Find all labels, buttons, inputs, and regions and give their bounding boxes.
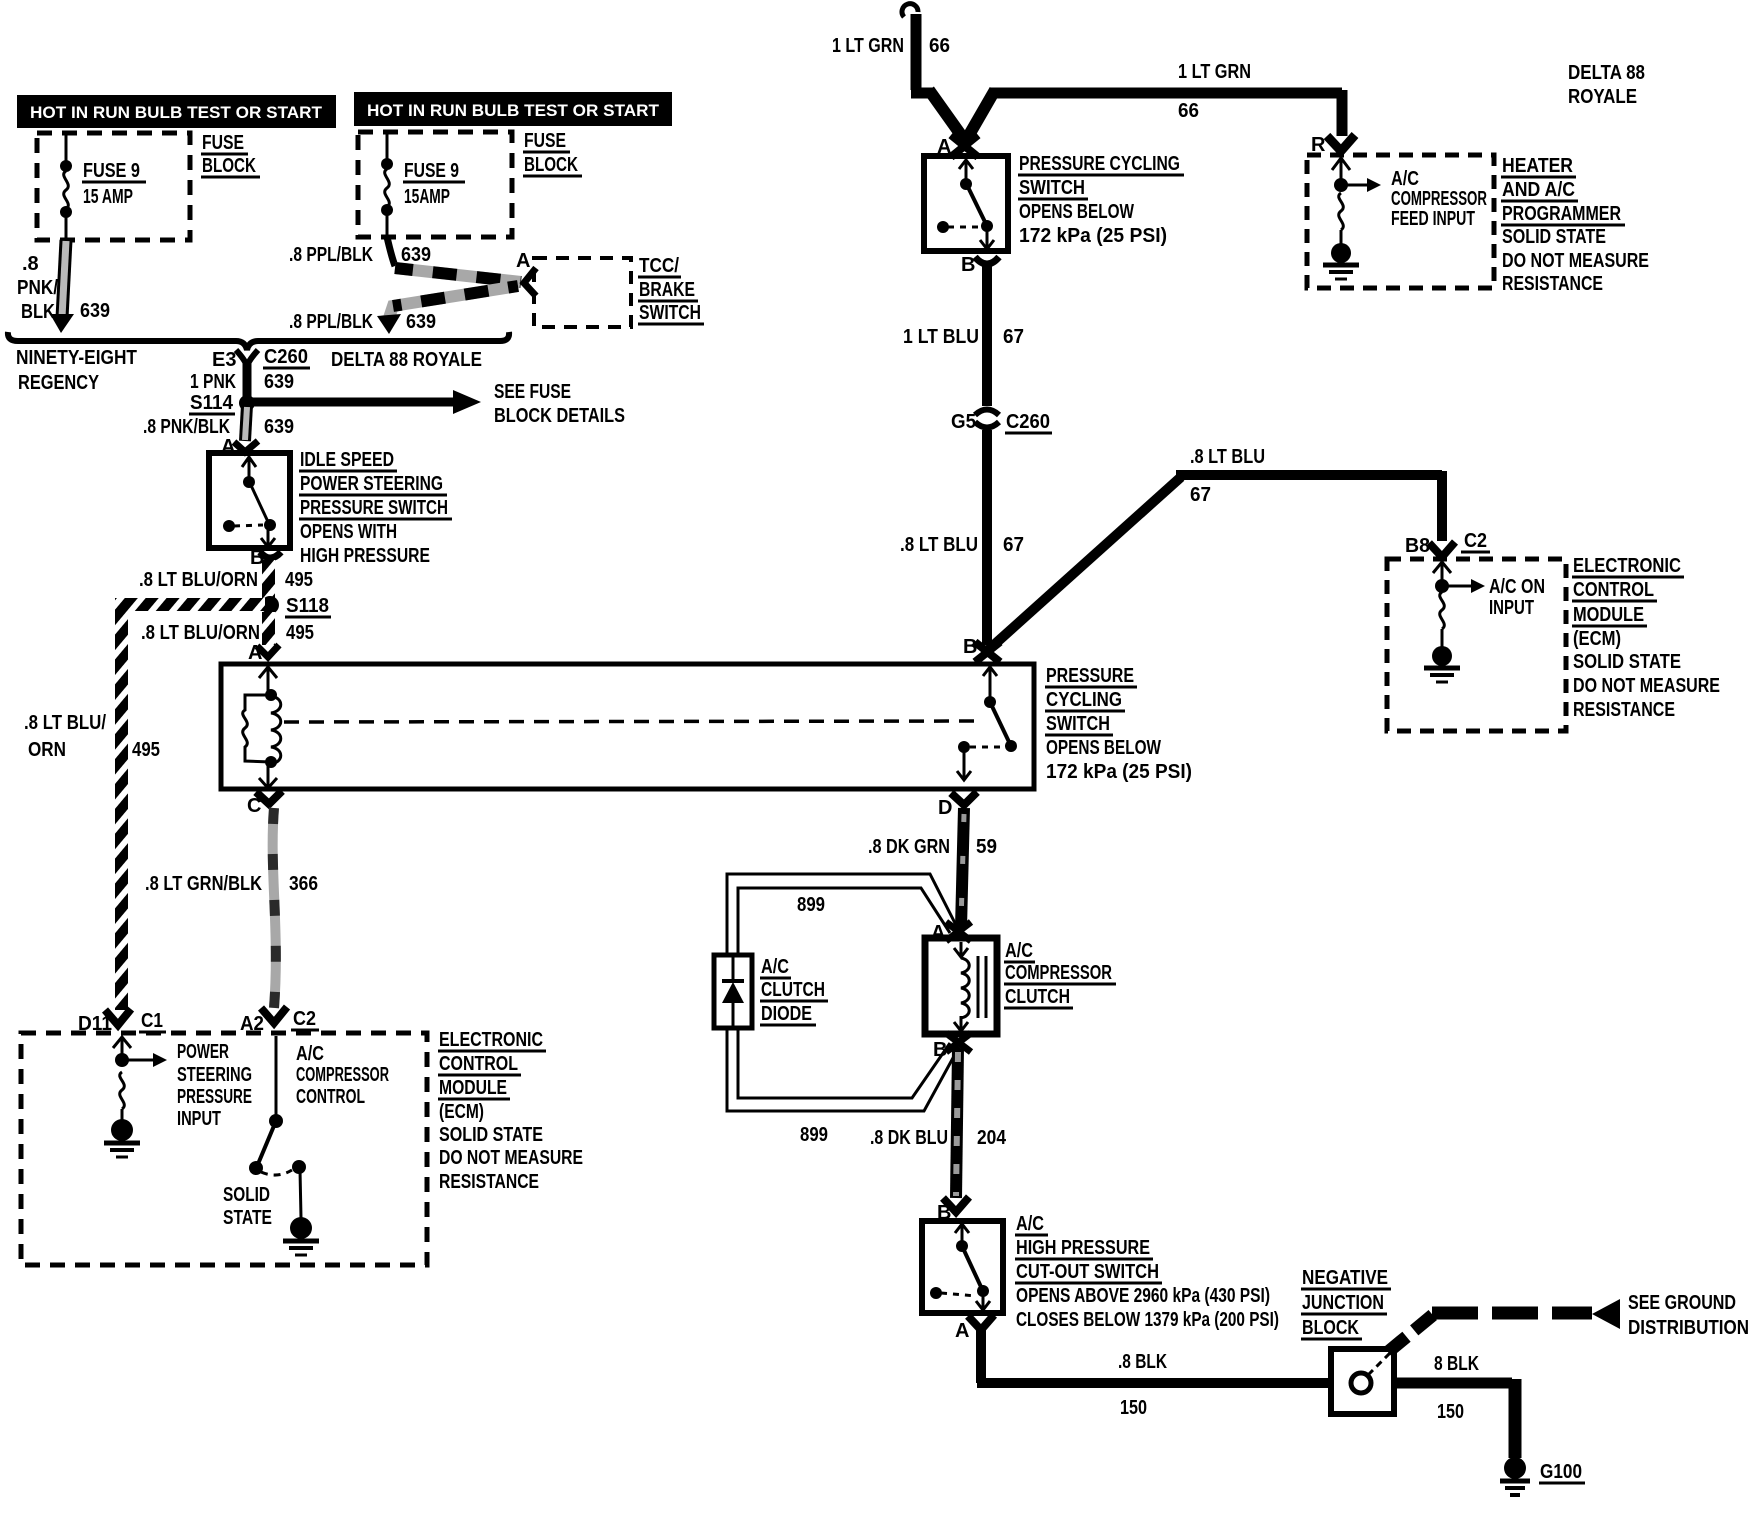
svg-text:.8: .8: [22, 253, 39, 275]
labels 1 LT GRN 66 (horizontal): [1178, 61, 1251, 122]
svg-text:STATE: STATE: [223, 1207, 272, 1229]
svg-text:639: 639: [264, 371, 294, 393]
label G100: [1539, 1461, 1585, 1483]
wire .8 LT GRN/BLK 366 (gray, C to A2): [273, 808, 276, 1008]
electronic control module right (dashed box): [1387, 559, 1566, 731]
wire 8 BLK 150 (block to G100): [1394, 1379, 1515, 1458]
svg-text:495: 495: [285, 569, 313, 591]
splice S114: [239, 395, 255, 411]
ECM input circuit (A/C ON): [1433, 562, 1471, 647]
arrowhead see ground distribution: [1592, 1299, 1620, 1329]
connector D: [951, 792, 977, 805]
switch contacts (assembly right): [957, 667, 1010, 780]
labels .8 LT BLU 67 (branch): [1190, 446, 1265, 506]
A/C compressor clutch (box): [925, 938, 997, 1034]
wire .8 PNK/BLK 639 (gray): [245, 405, 247, 441]
svg-text:.8 PPL/BLK: .8 PPL/BLK: [289, 244, 373, 266]
svg-text:(ECM): (ECM): [439, 1101, 484, 1123]
ground (ECM left internal 1): [104, 1119, 140, 1157]
fuse F9 (Ninety-Eight): [64, 133, 69, 240]
feed bar HOT IN RUN (Delta 88): [354, 92, 672, 126]
svg-text:SOLID STATE: SOLID STATE: [1502, 226, 1606, 248]
svg-text:G5: G5: [951, 411, 976, 433]
svg-text:BLOCK: BLOCK: [202, 155, 256, 177]
labels .8 LT GRN/BLK 366: [145, 873, 318, 895]
svg-text:DISTRIBUTION: DISTRIBUTION: [1628, 1317, 1749, 1339]
label A/C COMPRESSOR FEED INPUT: [1391, 168, 1487, 230]
wire stub from fuse 2: [387, 237, 395, 266]
svg-text:STEERING: STEERING: [177, 1064, 252, 1086]
label A/C COMPRESSOR CLUTCH: [1004, 940, 1116, 1008]
svg-text:172 kPa (25 PSI): 172 kPa (25 PSI): [1019, 225, 1167, 247]
labels .8 PPL/BLK 639 (upper): [289, 244, 431, 266]
connector C2 (ECM right): [1429, 542, 1455, 557]
svg-text:PNK/: PNK/: [17, 277, 58, 299]
labels .8 LT BLU/ORN 495 (left drop): [24, 712, 160, 761]
svg-text:RESISTANCE: RESISTANCE: [1502, 273, 1603, 295]
svg-text:C260: C260: [264, 346, 308, 368]
diode symbol: [722, 957, 744, 1026]
sensing coil: [271, 696, 281, 764]
label A/C ON INPUT: [1489, 576, 1545, 619]
wire striped S118 to A: [262, 612, 275, 645]
svg-text:DO NOT MEASURE: DO NOT MEASURE: [1502, 250, 1649, 272]
connector B: [975, 257, 999, 264]
svg-text:MODULE: MODULE: [439, 1077, 507, 1099]
svg-text:RESISTANCE: RESISTANCE: [1573, 699, 1675, 721]
svg-text:899: 899: [800, 1124, 828, 1146]
clutch coil and plates: [954, 942, 986, 1031]
connector C2 (A2): [261, 1007, 287, 1023]
wire .8 PPL/BLK lower band: [377, 286, 518, 334]
svg-text:SEE FUSE: SEE FUSE: [494, 381, 571, 403]
svg-text:A: A: [516, 250, 530, 272]
svg-text:172 kPa (25 PSI): 172 kPa (25 PSI): [1046, 761, 1192, 783]
svg-text:REGENCY: REGENCY: [18, 372, 100, 394]
svg-text:S118: S118: [286, 595, 329, 617]
label FUSE BLOCK 2: [523, 130, 582, 176]
svg-text:CONTROL: CONTROL: [439, 1053, 518, 1075]
svg-text:E3: E3: [212, 349, 236, 371]
svg-text:C260: C260: [1006, 411, 1050, 433]
wire 1 LT GRN 66 (horizontal to programmer): [965, 90, 1342, 142]
svg-text:FUSE 9: FUSE 9: [404, 160, 459, 182]
wire .8 LT BLU 67 (branch to ECM): [986, 471, 1442, 652]
svg-text:ELECTRONIC: ELECTRONIC: [1573, 555, 1681, 577]
wire .8 DK BLU 204 (clutch B to cut-out B): [956, 1048, 958, 1198]
label DELTA 88 ROYALE (top right): [1568, 62, 1645, 108]
fuse F9 (Delta 88): [385, 132, 390, 237]
labels .8 BLK 150: [1118, 1351, 1167, 1419]
svg-text:(ECM): (ECM): [1573, 628, 1621, 650]
svg-text:A: A: [955, 1320, 969, 1342]
connector C260 (E3): [236, 350, 258, 366]
svg-text:TCC/: TCC/: [639, 255, 679, 277]
svg-text:.8 LT BLU/ORN: .8 LT BLU/ORN: [141, 622, 260, 644]
labels .8 DK GRN 59: [868, 836, 997, 858]
svg-text:495: 495: [132, 739, 160, 761]
svg-text:FUSE: FUSE: [524, 130, 566, 152]
svg-text:8 BLK: 8 BLK: [1434, 1353, 1479, 1375]
labels .8 DK BLU 204: [870, 1127, 1007, 1149]
svg-text:C1: C1: [141, 1010, 163, 1032]
pressure cycling switch (box): [924, 156, 1008, 251]
connector A (TCC): [524, 268, 536, 296]
svg-text:S114: S114: [190, 392, 234, 414]
wire striped S118 left branch: [115, 598, 265, 611]
mechanical link (dashed): [284, 721, 981, 722]
connector R: [1327, 135, 1355, 151]
svg-text:NINETY-EIGHT: NINETY-EIGHT: [16, 347, 137, 369]
svg-text:C2: C2: [1464, 530, 1487, 552]
svg-text:150: 150: [1120, 1397, 1147, 1419]
svg-text:OPENS WITH: OPENS WITH: [300, 521, 397, 543]
svg-text:COMPRESSOR: COMPRESSOR: [1391, 188, 1487, 210]
pressure cycling switch assembly (big box): [221, 664, 1034, 789]
svg-text:.8 LT BLU/: .8 LT BLU/: [24, 712, 106, 734]
connector A assembly: [257, 645, 279, 657]
label ELECTRONIC CONTROL MODULE (ECM) left: [438, 1029, 583, 1193]
svg-text:204: 204: [977, 1127, 1007, 1149]
svg-text:RESISTANCE: RESISTANCE: [439, 1171, 539, 1193]
svg-text:.8 LT BLU: .8 LT BLU: [900, 534, 978, 556]
svg-text:CYCLING: CYCLING: [1046, 689, 1122, 711]
svg-text:899: 899: [797, 894, 825, 916]
svg-text:PROGRAMMER: PROGRAMMER: [1502, 203, 1621, 225]
exit arrow C: [259, 764, 277, 788]
svg-text:PRESSURE: PRESSURE: [177, 1086, 252, 1108]
svg-text:FUSE 9: FUSE 9: [83, 160, 140, 182]
ground (ECM right internal): [1424, 646, 1460, 682]
svg-text:639: 639: [401, 244, 431, 266]
svg-text:CLUTCH: CLUTCH: [1005, 986, 1070, 1008]
svg-text:COMPRESSOR: COMPRESSOR: [296, 1064, 389, 1086]
svg-text:.8 LT GRN/BLK: .8 LT GRN/BLK: [145, 873, 262, 895]
labels E3 C260 639 1 PNK S114: [143, 346, 310, 458]
label ELECTRONIC CONTROL MODULE (ECM): [1572, 555, 1720, 721]
switch contacts (idle speed): [234, 457, 275, 547]
label FUSE 9 15 AMP: [82, 160, 146, 208]
label A/C CLUTCH DIODE: [760, 956, 828, 1025]
svg-text:ELECTRONIC: ELECTRONIC: [439, 1029, 543, 1051]
svg-text:.8 BLK: .8 BLK: [1118, 1351, 1167, 1373]
wire .8 PNK/BLK 639 (gray outlined drop): [50, 240, 74, 333]
svg-text:PRESSURE SWITCH: PRESSURE SWITCH: [300, 497, 448, 519]
label NINETY-EIGHT REGENCY: [16, 347, 137, 394]
ECM output switch (solid state): [258, 1036, 301, 1218]
svg-text:150: 150: [1437, 1401, 1464, 1423]
entry arrow A: [259, 667, 277, 692]
svg-text:COMPRESSOR: COMPRESSOR: [1005, 962, 1112, 984]
svg-text:G100: G100: [1540, 1461, 1582, 1483]
svg-text:495: 495: [286, 622, 314, 644]
connector C: [256, 791, 282, 804]
fuse block 1 (dashed box): [37, 133, 190, 240]
wire .8 BLK 150: [977, 1328, 1331, 1383]
svg-text:SWITCH: SWITCH: [1019, 177, 1085, 199]
svg-text:PRESSURE CYCLING: PRESSURE CYCLING: [1019, 153, 1180, 175]
switch contacts (cut-out): [941, 1224, 990, 1310]
wire striped .8 LT BLU/ORN 495 left drop: [115, 598, 128, 1010]
label FUSE BLOCK 1: [201, 132, 260, 177]
wire 899 loop (diode harness top): [727, 874, 958, 957]
svg-text:DIODE: DIODE: [761, 1003, 812, 1025]
svg-text:366: 366: [289, 873, 318, 895]
svg-text:.8 PNK/BLK: .8 PNK/BLK: [143, 416, 230, 438]
label POWER STEERING PRESSURE INPUT: [177, 1041, 252, 1130]
ground G100: [1500, 1457, 1530, 1495]
svg-text:HOT IN RUN BULB TEST OR START: HOT IN RUN BULB TEST OR START: [30, 103, 323, 122]
connector B idle switch: [260, 552, 281, 558]
svg-text:HEATER: HEATER: [1502, 155, 1573, 177]
svg-text:A/C: A/C: [1005, 940, 1033, 962]
svg-text:15 AMP: 15 AMP: [83, 186, 133, 208]
svg-text:DELTA 88: DELTA 88: [1568, 62, 1645, 84]
svg-text:CONTROL: CONTROL: [1573, 579, 1654, 601]
labels .8 PPL/BLK 639 (lower): [289, 311, 436, 333]
svg-text:A/C: A/C: [1391, 168, 1419, 190]
labels 1 LT BLU 67: [903, 326, 1024, 348]
connector B cut-out: [943, 1197, 969, 1212]
label SEE GROUND DISTRIBUTION: [1628, 1292, 1749, 1339]
label PRESSURE CYCLING SWITCH OPENS BELOW 172 kPa: [1045, 665, 1192, 783]
svg-text:CUT-OUT SWITCH: CUT-OUT SWITCH: [1016, 1261, 1159, 1283]
svg-text:HOT IN RUN BULB TEST OR START: HOT IN RUN BULB TEST OR START: [367, 101, 660, 120]
idle speed power steering pressure switch (box): [209, 453, 290, 548]
labels 1 LT GRN 66 (vertical): [832, 35, 950, 57]
label C1: [139, 1010, 166, 1032]
svg-text:FUSE: FUSE: [202, 132, 244, 154]
parallel resistor: [243, 695, 271, 762]
svg-text:67: 67: [1003, 326, 1024, 348]
wire 1 PNK 639: [243, 360, 252, 399]
splice S118: [261, 596, 279, 614]
svg-text:OPENS BELOW: OPENS BELOW: [1046, 737, 1161, 759]
svg-text:1 LT BLU: 1 LT BLU: [903, 326, 979, 348]
ground (ECM left internal 2): [283, 1217, 319, 1255]
label C2: [291, 1008, 319, 1030]
label S118 495: [285, 595, 331, 644]
svg-text:BRAKE: BRAKE: [639, 279, 695, 301]
label SEE FUSE BLOCK DETAILS: [494, 381, 625, 427]
svg-text:A/C: A/C: [761, 956, 789, 978]
svg-text:A/C: A/C: [296, 1043, 324, 1065]
svg-text:639: 639: [406, 311, 436, 333]
svg-text:SEE GROUND: SEE GROUND: [1628, 1292, 1736, 1314]
svg-text:DO NOT MEASURE: DO NOT MEASURE: [1573, 675, 1720, 697]
label TCC/BRAKE SWITCH: [638, 255, 704, 324]
wire to ground distribution (thick dashed): [1388, 1313, 1592, 1352]
wire .8 LT BLU 67 (to assembly B): [982, 430, 992, 645]
svg-text:BLOCK: BLOCK: [524, 154, 578, 176]
svg-text:OPENS BELOW: OPENS BELOW: [1019, 201, 1134, 223]
svg-text:FEED INPUT: FEED INPUT: [1391, 208, 1475, 230]
svg-text:SWITCH: SWITCH: [1046, 713, 1110, 735]
labels 8 BLK 150: [1434, 1353, 1479, 1423]
fuse block 2 (dashed box): [358, 132, 512, 237]
svg-text:67: 67: [1190, 484, 1211, 506]
svg-text:A/C ON: A/C ON: [1489, 576, 1545, 598]
heater and A/C programmer (dashed box): [1307, 155, 1494, 288]
svg-text:.8 LT BLU/ORN: .8 LT BLU/ORN: [139, 569, 258, 591]
svg-text:15AMP: 15AMP: [404, 186, 450, 208]
svg-text:BLK: BLK: [21, 301, 55, 323]
svg-text:PRESSURE: PRESSURE: [1046, 665, 1134, 687]
negative junction block (box): [1331, 1349, 1394, 1414]
svg-text:B: B: [961, 254, 975, 276]
A/C high pressure cut-out switch (box): [922, 1221, 1003, 1313]
ground (programmer internal): [1323, 243, 1359, 279]
svg-text:INPUT: INPUT: [177, 1108, 221, 1130]
svg-text:A/C: A/C: [1016, 1213, 1044, 1235]
label IDLE SPEED POWER STEERING PRESSURE SWITCH: [299, 449, 452, 567]
svg-text:CLUTCH: CLUTCH: [761, 979, 825, 1001]
svg-text:66: 66: [1178, 100, 1199, 122]
TCC/brake switch (dashed box): [534, 258, 631, 327]
svg-text:D: D: [938, 797, 952, 819]
labels .8 LT BLU/ORN 495: [139, 569, 313, 591]
wire .8 LT BLU/ORN 495 (striped, B to S118): [262, 560, 275, 602]
svg-text:B8: B8: [1405, 535, 1430, 557]
svg-text:66: 66: [929, 35, 950, 57]
connector A (inline joint): [946, 922, 971, 941]
label FUSE 9 15AMP: [403, 160, 465, 208]
connector A (inline joint): [951, 135, 978, 157]
labels G5 C260: [951, 411, 1052, 433]
feed bar HOT IN RUN (Ninety-Eight): [17, 95, 336, 128]
svg-text:67: 67: [1003, 534, 1024, 556]
svg-text:SOLID STATE: SOLID STATE: [439, 1124, 543, 1146]
switch contacts (pressure cycling): [948, 160, 994, 249]
svg-text:CONTROL: CONTROL: [296, 1086, 365, 1108]
brace (harness bracket): [8, 332, 509, 350]
svg-text:POWER: POWER: [177, 1041, 229, 1063]
svg-text:DO NOT MEASURE: DO NOT MEASURE: [439, 1147, 583, 1169]
svg-text:639: 639: [264, 416, 294, 438]
label SOLID STATE: [223, 1184, 272, 1229]
labels .8 PNK/BLK 639: [17, 253, 110, 323]
svg-text:ROYALE: ROYALE: [1568, 86, 1637, 108]
wire arrow SEE FUSE BLOCK DETAILS: [251, 390, 481, 414]
wire .8 PPL/BLK upper band: [395, 268, 521, 282]
wire 1 LT GRN 66 (top feed): [902, 4, 966, 142]
svg-text:NEGATIVE: NEGATIVE: [1302, 1267, 1388, 1289]
wire 1 LT BLU 67: [982, 264, 992, 406]
svg-text:INPUT: INPUT: [1489, 597, 1534, 619]
electronic control module left (dashed box): [21, 1033, 427, 1265]
label PRESSURE CYCLING SWITCH OPENS BELOW 172 kPa: [1018, 153, 1184, 247]
svg-text:C2: C2: [293, 1008, 316, 1030]
svg-text:DELTA 88 ROYALE: DELTA 88 ROYALE: [331, 349, 482, 371]
connector B (inline joint): [975, 642, 1000, 662]
connector A cut-out: [968, 1315, 994, 1330]
svg-text:59: 59: [976, 836, 997, 858]
label HEATER AND A/C PROGRAMMER: [1501, 155, 1649, 295]
labels .8 LT BLU 67: [900, 534, 1024, 556]
svg-text:1 LT GRN: 1 LT GRN: [832, 35, 904, 57]
label C2: [1461, 530, 1490, 552]
svg-text:SOLID STATE: SOLID STATE: [1573, 651, 1681, 673]
svg-text:OPENS ABOVE 2960 kPa (430 PSI): OPENS ABOVE 2960 kPa (430 PSI): [1016, 1285, 1270, 1307]
svg-text:BLOCK: BLOCK: [1302, 1317, 1359, 1339]
connector B (inline joint): [946, 1033, 971, 1052]
programmer feed input circuit: [1332, 158, 1367, 244]
svg-text:.8 DK BLU: .8 DK BLU: [870, 1127, 948, 1149]
svg-text:MODULE: MODULE: [1573, 604, 1644, 626]
wire 899 loop (diode harness bottom): [727, 1026, 959, 1111]
svg-text:BLOCK DETAILS: BLOCK DETAILS: [494, 405, 625, 427]
connector C1 (D11): [105, 1009, 131, 1025]
label NEGATIVE JUNCTION BLOCK: [1301, 1267, 1391, 1339]
svg-text:.8 PPL/BLK: .8 PPL/BLK: [289, 311, 373, 333]
svg-text:AND A/C: AND A/C: [1502, 179, 1575, 201]
label A/C COMPRESSOR CONTROL: [296, 1043, 389, 1108]
svg-text:1 PNK: 1 PNK: [190, 371, 236, 393]
wire .8 DK GRN 59 (D to clutch A): [961, 808, 964, 928]
svg-text:SWITCH: SWITCH: [639, 302, 701, 324]
svg-text:POWER STEERING: POWER STEERING: [300, 473, 443, 495]
svg-text:HIGH PRESSURE: HIGH PRESSURE: [1016, 1237, 1150, 1259]
svg-text:JUNCTION: JUNCTION: [1302, 1292, 1384, 1314]
svg-text:HIGH PRESSURE: HIGH PRESSURE: [300, 545, 430, 567]
A/C clutch diode (box): [714, 955, 752, 1028]
svg-text:CLOSES BELOW 1379 kPa (200 PSI: CLOSES BELOW 1379 kPa (200 PSI): [1016, 1309, 1279, 1331]
ECM input circuit (power steering): [113, 1037, 153, 1120]
svg-text:.8 DK GRN: .8 DK GRN: [868, 836, 950, 858]
connector C260 (G5): [975, 410, 999, 428]
svg-text:SOLID: SOLID: [223, 1184, 270, 1206]
junction terminal: [1351, 1373, 1371, 1393]
svg-text:ORN: ORN: [28, 739, 66, 761]
svg-text:1 LT GRN: 1 LT GRN: [1178, 61, 1251, 83]
label A/C HIGH PRESSURE CUT-OUT SWITCH: [1015, 1213, 1279, 1331]
connector A idle switch: [234, 441, 258, 452]
svg-text:IDLE SPEED: IDLE SPEED: [300, 449, 394, 471]
svg-text:.8 LT BLU: .8 LT BLU: [1190, 446, 1265, 468]
svg-text:639: 639: [80, 300, 110, 322]
